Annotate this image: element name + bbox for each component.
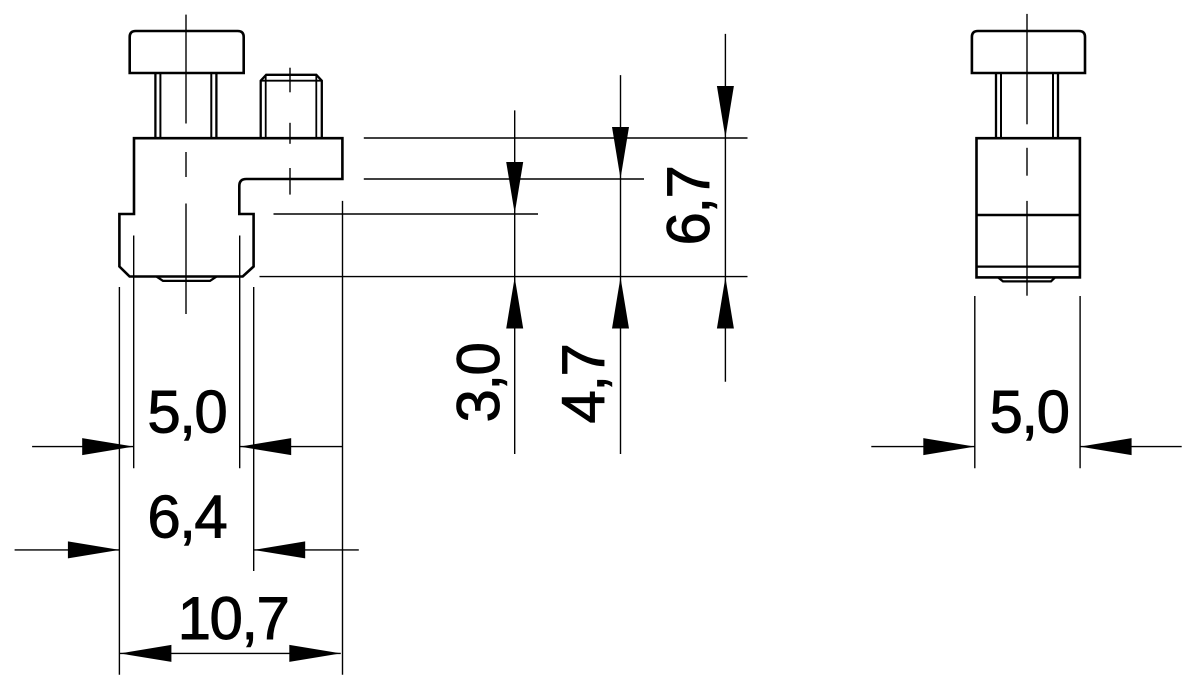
extension line: step right edge down (for 5,0) <box>239 236 241 469</box>
extension line: step edge (for 3,0) <box>274 213 539 215</box>
svg-text:5,0: 5,0 <box>147 378 226 445</box>
arrow left dim 5,0 right view <box>1080 438 1132 455</box>
svg-text:5,0: 5,0 <box>990 379 1069 446</box>
arrow down dim 3,0 <box>506 162 523 214</box>
dimension 5,0 right view lines <box>871 446 1181 448</box>
left view: screw shaft outer line left <box>154 73 156 138</box>
svg-text:3,0: 3,0 <box>445 343 512 422</box>
extension line: body right edge down (for 10,7) <box>342 201 344 675</box>
right view: bottom contact notch <box>998 277 1055 281</box>
left view: bottom contact notch <box>157 277 217 281</box>
arrow left dim 5,0 <box>240 438 292 455</box>
dimension line 3,0 <box>514 110 516 454</box>
arrow right dim 10,7 <box>289 645 341 662</box>
dimension line 4,7 <box>620 75 622 454</box>
arrow down dim 6,7 <box>717 86 734 138</box>
left view: screw shaft inner line left <box>159 73 161 138</box>
extension line: body left edge down (for 5,0) <box>133 236 135 469</box>
right view: screw shaft inner line left <box>1000 73 1002 138</box>
left view: clamping pin inner line left <box>265 76 267 138</box>
extension line: right body left edge down <box>974 296 976 468</box>
right view: screw shaft outer line left <box>995 73 997 138</box>
dimension 10,7 line <box>120 652 341 654</box>
extension line: right body right edge down <box>1079 296 1081 468</box>
arrow left dim 6,4 <box>254 541 306 558</box>
arrow up dim 6,7 <box>717 277 734 328</box>
right view: body step line <box>977 214 1080 217</box>
arrow left dim 10,7 <box>120 645 171 662</box>
left view: screw center line <box>185 15 187 314</box>
right view: screw shaft outer line right <box>1057 73 1059 138</box>
arrow down dim 4,7 <box>612 127 629 179</box>
right view: center line <box>1026 14 1028 296</box>
left view: body outline <box>119 138 342 276</box>
extension line: foot right edge down (for 6,4) <box>253 287 255 571</box>
right view: body chamfer line <box>977 265 1080 267</box>
arrow up dim 4,7 <box>612 277 629 328</box>
extension line: body top edge (for 6,7) <box>364 137 748 139</box>
left view: clamping pin inner line right <box>315 76 317 138</box>
extension line: arm bottom edge (for 4,7) <box>364 178 644 180</box>
svg-text:6,4: 6,4 <box>147 483 226 550</box>
svg-text:6,7: 6,7 <box>655 167 722 246</box>
right view: screw head <box>972 31 1085 73</box>
arrow up dim 3,0 <box>506 277 523 328</box>
left view: screw head <box>130 31 244 73</box>
arrow right dim 5,0 right view <box>923 438 975 455</box>
arrow right dim 6,4 <box>68 541 120 558</box>
left view: clamping pin outline <box>261 75 322 138</box>
dimension line 6,7 <box>724 34 726 382</box>
left view: screw shaft inner line right <box>210 73 212 138</box>
right view: body outline <box>977 138 1080 277</box>
dimension 6,4 lines <box>15 549 359 551</box>
extension line: foot left edge down (for 6,4 10,7) <box>118 287 120 675</box>
svg-text:10,7: 10,7 <box>178 585 289 652</box>
svg-text:4,7: 4,7 <box>550 345 617 424</box>
dimension 5,0 left view lines <box>32 446 342 448</box>
extension line: bottom edge (for 3,0 4,7 6,7) <box>260 276 748 278</box>
left view: clamping pin top inner line <box>261 80 322 82</box>
arrow right dim 5,0 <box>82 438 134 455</box>
left view: screw shaft outer line right <box>215 73 217 138</box>
left view: pin center line <box>289 68 291 195</box>
right view: screw shaft inner line right <box>1052 73 1054 138</box>
